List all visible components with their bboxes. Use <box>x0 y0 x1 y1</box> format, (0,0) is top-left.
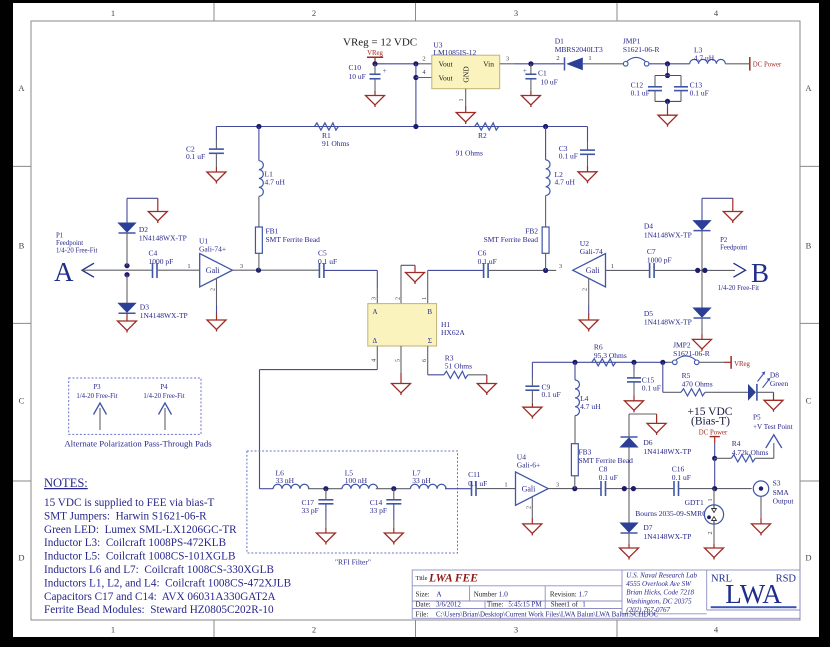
svg-text:A: A <box>54 257 74 287</box>
wire down to cap pair <box>667 64 669 76</box>
svg-text:+V Test Point: +V Test Point <box>753 423 793 431</box>
svg-text:LWA: LWA <box>725 579 782 609</box>
svg-text:Revision:: Revision: <box>550 591 577 599</box>
node C1 <box>528 61 533 66</box>
svg-text:1N4148WX-TP: 1N4148WX-TP <box>643 447 691 456</box>
svg-text:S3: S3 <box>773 479 781 488</box>
ground above D2 <box>148 198 167 223</box>
node C14 <box>391 486 396 491</box>
svg-text:0.1 uF: 0.1 uF <box>631 89 650 98</box>
node B feed right <box>702 268 707 273</box>
svg-text:0.1 uF: 0.1 uF <box>542 390 561 399</box>
svg-text:+: + <box>383 66 387 75</box>
label FB1 <box>266 226 321 244</box>
svg-text:33 pF: 33 pF <box>302 506 319 515</box>
svg-text:GND: GND <box>462 66 471 83</box>
ground U3 <box>456 106 475 124</box>
label C16 <box>672 464 691 482</box>
svg-text:33 nH: 33 nH <box>412 476 431 485</box>
svg-text:HX62A: HX62A <box>441 328 465 337</box>
label R5 <box>682 371 713 389</box>
address block <box>626 571 697 614</box>
label C10 <box>349 63 366 81</box>
label P2 <box>720 237 747 252</box>
svg-text:1.7: 1.7 <box>579 590 589 599</box>
node cap pair join <box>665 99 670 104</box>
svg-text:Output: Output <box>773 496 795 505</box>
wire JMP1 to L3 <box>649 63 690 65</box>
svg-text:3: 3 <box>559 263 562 270</box>
wire D2 to node <box>126 233 128 266</box>
svg-text:SMT Ferrite Bead: SMT Ferrite Bead <box>266 235 321 244</box>
port B arrow <box>734 263 746 277</box>
svg-text:0.1 uF: 0.1 uF <box>690 89 709 98</box>
label C1 <box>538 69 558 87</box>
node C12/C13 top <box>665 61 670 66</box>
svg-text:1N4148WX-TP: 1N4148WX-TP <box>644 317 692 326</box>
wire C5 to H1 pin3 <box>324 270 377 303</box>
logo NRL/RSD/LWA <box>711 574 797 610</box>
svg-text:VReg: VReg <box>367 50 383 57</box>
wire D8 to ground <box>757 392 774 400</box>
node U2 in <box>543 268 548 273</box>
svg-text:B: B <box>806 241 812 251</box>
svg-text:DC Power: DC Power <box>753 62 782 69</box>
ground D8 <box>764 400 783 412</box>
label FB2 <box>484 226 539 244</box>
ground C12/C13 <box>658 101 677 126</box>
power port DC Power (top) <box>750 57 782 71</box>
svg-text:P1: P1 <box>56 233 63 240</box>
svg-text:10 uF: 10 uF <box>541 78 558 87</box>
title block text <box>416 573 659 619</box>
svg-text:D6: D6 <box>643 438 652 447</box>
label U1 <box>199 237 226 254</box>
wire U3 pin3 to C1 <box>500 63 565 65</box>
inductor L5 <box>342 484 378 488</box>
svg-text:1: 1 <box>458 98 465 101</box>
wire D2 top corner <box>127 198 158 223</box>
wire C11 to U4 <box>476 488 516 490</box>
wire bias rail <box>532 361 668 363</box>
svg-text:6: 6 <box>421 359 428 362</box>
svg-text:SMT Ferrite Bead: SMT Ferrite Bead <box>484 235 539 244</box>
label C4 <box>149 249 174 267</box>
svg-text:3: 3 <box>514 625 518 635</box>
svg-text:Number: Number <box>474 591 498 599</box>
capacitor C6 <box>484 263 489 278</box>
label C13 <box>690 80 709 97</box>
svg-text:FB1: FB1 <box>266 226 279 235</box>
resistor R2 <box>475 123 499 130</box>
svg-text:3: 3 <box>240 263 243 270</box>
svg-text:(Bias-T): (Bias-T) <box>691 415 730 427</box>
svg-text:P3: P3 <box>93 384 101 391</box>
label C14 <box>370 498 387 515</box>
svg-text:2: 2 <box>394 297 401 300</box>
diode D3 <box>119 303 136 313</box>
wire C8 to C16 <box>606 488 675 490</box>
svg-text:C8: C8 <box>599 464 608 473</box>
svg-text:P2: P2 <box>720 237 728 244</box>
svg-text:D7: D7 <box>643 523 652 532</box>
capacitor C14 <box>386 489 401 533</box>
op-amp U3 regulator body <box>432 55 500 88</box>
svg-text:1: 1 <box>111 8 115 18</box>
capacitor C12 <box>648 76 681 102</box>
svg-text:1: 1 <box>187 263 190 270</box>
ground above D4 <box>723 198 742 223</box>
label C17 <box>302 498 319 515</box>
label D4 <box>644 222 692 240</box>
svg-text:D: D <box>18 553 24 563</box>
inductor L6 <box>273 484 309 488</box>
transformer H1 body <box>368 304 437 346</box>
label C11 <box>468 470 487 488</box>
svg-text:1/4-20 Free-Fit: 1/4-20 Free-Fit <box>718 285 759 292</box>
svg-text:+: + <box>523 66 527 75</box>
svg-text:Gali: Gali <box>522 485 537 494</box>
test point P5 arrow <box>766 435 782 459</box>
label L4 <box>580 394 601 411</box>
notes block <box>44 476 291 616</box>
connector S3 <box>753 481 768 496</box>
svg-text:1/4-20 Free-Fit: 1/4-20 Free-Fit <box>56 248 97 255</box>
H1 pin2 to ground <box>394 265 424 303</box>
svg-text:1N4148WX-TP: 1N4148WX-TP <box>643 532 691 541</box>
svg-text:Δ: Δ <box>373 337 378 345</box>
diode D4 <box>694 221 711 231</box>
svg-text:1N4148WX-TP: 1N4148WX-TP <box>644 230 692 239</box>
label S3 <box>773 479 795 506</box>
svg-text:4.7 uH: 4.7 uH <box>555 178 576 187</box>
svg-text:LM1085IS-12: LM1085IS-12 <box>433 48 476 57</box>
svg-text:0.1 uF: 0.1 uF <box>478 257 497 266</box>
ground below D3 <box>118 313 137 332</box>
node center rail tap <box>413 124 418 129</box>
svg-text:1.0: 1.0 <box>499 590 509 599</box>
label U3 <box>433 41 476 58</box>
svg-text:Title: Title <box>416 575 428 582</box>
svg-text:33 nH: 33 nH <box>276 476 295 485</box>
svg-text:C10: C10 <box>349 63 362 72</box>
svg-text:4.7 uH: 4.7 uH <box>580 402 601 411</box>
svg-text:C: C <box>806 396 812 406</box>
pad P3 <box>76 384 117 430</box>
label D3 <box>140 303 188 321</box>
wire D4 top corner <box>702 198 733 220</box>
resistor R4 <box>715 455 774 462</box>
label JMP2 <box>673 340 710 358</box>
svg-text:4.7 uH: 4.7 uH <box>694 53 715 62</box>
svg-text:0.1 uF: 0.1 uF <box>672 473 691 482</box>
svg-text:Inductor L3: Coilcraft 1008PS: Inductor L3: Coilcraft 1008PS-472KLB <box>44 537 226 549</box>
label P1 <box>56 233 97 255</box>
ground C1 <box>521 96 540 108</box>
svg-text:S1621-06-R: S1621-06-R <box>623 45 660 54</box>
capacitor C5 <box>319 263 324 278</box>
wire DC Power to output node <box>714 458 716 488</box>
svg-text:15 VDC is supplied to FEE via: 15 VDC is supplied to FEE via bias-T <box>44 497 215 509</box>
node D6/D7 left <box>622 486 627 491</box>
D1 pin numbers <box>556 55 591 62</box>
svg-text:1: 1 <box>111 625 115 635</box>
svg-text:"RFI Filter": "RFI Filter" <box>335 557 371 566</box>
node pin2 tap <box>413 61 418 66</box>
wire U1 out <box>232 269 319 271</box>
H1 pin5 ground <box>392 346 411 395</box>
label R3 <box>445 354 472 371</box>
pad P4 <box>143 384 184 430</box>
svg-text:A: A <box>805 83 812 93</box>
svg-text:B: B <box>19 241 25 251</box>
svg-text:0.1 uF: 0.1 uF <box>559 151 578 160</box>
wire into L6 <box>260 488 274 490</box>
svg-text:(202) 767-0767: (202) 767-0767 <box>626 606 670 614</box>
svg-text:0.1 uF: 0.1 uF <box>186 152 205 161</box>
svg-text:1000 pF: 1000 pF <box>149 257 174 266</box>
svg-text:P5: P5 <box>753 413 761 421</box>
diode D2 <box>119 223 136 233</box>
node R4 left <box>712 456 717 461</box>
svg-text:Alternate Polarization Pass-Th: Alternate Polarization Pass-Through Pads <box>64 438 212 448</box>
wire C4 to U1 <box>157 269 200 271</box>
node U1 out <box>256 268 261 273</box>
svg-text:Feedpoint: Feedpoint <box>56 240 83 247</box>
wire A to C4 <box>127 269 152 271</box>
U3 GND pin <box>465 89 467 106</box>
svg-text:File:: File: <box>416 610 429 618</box>
label D8 <box>770 370 789 388</box>
wire R5 branch <box>663 362 681 392</box>
GDT1 ground <box>705 524 724 560</box>
capacitor C3 <box>580 127 595 172</box>
H1 pin4 wire <box>371 346 378 370</box>
diode D5 <box>694 308 711 318</box>
svg-text:10 uF: 10 uF <box>349 72 366 81</box>
svg-text:U.S. Naval Research Lab: U.S. Naval Research Lab <box>626 571 697 579</box>
node L1 <box>256 124 261 129</box>
capacitor C11 <box>472 481 477 496</box>
capacitor C15 <box>627 362 641 401</box>
svg-text:DC Power: DC Power <box>699 429 728 436</box>
inductor L7 <box>410 484 446 488</box>
svg-text:FB2: FB2 <box>525 226 538 235</box>
svg-text:2: 2 <box>556 55 559 62</box>
capacitor C10 <box>370 64 387 96</box>
svg-text:2: 2 <box>312 625 316 635</box>
label L1 <box>265 170 286 187</box>
svg-text:5:45:15 PM: 5:45:15 PM <box>508 601 542 609</box>
svg-text:GDT1: GDT1 <box>685 498 704 507</box>
svg-text:R2: R2 <box>478 131 487 140</box>
label C15 <box>642 375 661 392</box>
wire C16 to S3 <box>679 488 752 490</box>
wire node to D5 <box>701 270 703 308</box>
svg-text:3: 3 <box>556 482 559 489</box>
label D7 <box>643 523 691 541</box>
svg-text:1: 1 <box>582 601 586 609</box>
svg-text:Gali: Gali <box>206 266 221 275</box>
U3 pin names <box>439 60 495 83</box>
svg-text:Inductors L1, L2, and L4: Coi: Inductors L1, L2, and L4: Coilcraft 1008… <box>44 577 291 589</box>
svg-text:1/4-20 Free-Fit: 1/4-20 Free-Fit <box>143 393 184 400</box>
wire D6 top corner <box>629 414 657 436</box>
svg-text:C11: C11 <box>468 470 480 479</box>
wire H1 pin4 to RFI filter <box>260 370 378 489</box>
wire D1 to JMP1 <box>583 63 624 65</box>
ferrite bead FB2 <box>542 227 549 270</box>
svg-text:Σ: Σ <box>428 337 432 345</box>
svg-text:VReg = 12 VDC: VReg = 12 VDC <box>343 37 417 49</box>
pads dashed box <box>69 378 201 434</box>
inductor L4 <box>575 362 579 443</box>
H1 corner pin names <box>373 308 433 345</box>
svg-text:SMT Jumpers: Harwin S1621-06-: SMT Jumpers: Harwin S1621-06-R <box>44 510 207 522</box>
ferrite bead FB3 <box>571 444 578 489</box>
svg-text:91 Ohms: 91 Ohms <box>456 148 483 157</box>
svg-text:Gali-6+: Gali-6+ <box>517 460 540 469</box>
label C5 <box>318 249 337 266</box>
svg-text:MBRS2040LT3: MBRS2040LT3 <box>555 45 603 54</box>
label L5 <box>345 469 368 486</box>
ground below D5 <box>693 318 712 351</box>
label U2 <box>580 239 603 256</box>
resistor R6 <box>592 359 616 366</box>
node A feed lower <box>124 272 129 277</box>
capacitor C1 <box>523 64 537 96</box>
ground C10 <box>366 96 385 108</box>
svg-text:Gali-74+: Gali-74+ <box>199 245 226 254</box>
wire D4 to node <box>701 231 703 271</box>
svg-text:100 nH: 100 nH <box>345 476 368 485</box>
svg-text:C16: C16 <box>672 464 685 473</box>
svg-text:Brian Hicks, Code 7218: Brian Hicks, Code 7218 <box>626 589 694 597</box>
svg-text:0.1 uF: 0.1 uF <box>468 479 487 488</box>
svg-text:VReg: VReg <box>734 361 750 368</box>
wire second rail <box>216 126 587 128</box>
svg-text:Bourns 2035-09-SMRG: Bourns 2035-09-SMRG <box>635 509 708 518</box>
label C3 <box>559 144 578 161</box>
jumper JMP2 <box>668 356 699 365</box>
wire U4 out <box>548 488 601 490</box>
inductor L2 <box>546 127 550 228</box>
label C6 <box>478 249 497 266</box>
svg-text:Feedpoint: Feedpoint <box>720 245 747 252</box>
svg-text:2: 2 <box>422 56 425 63</box>
svg-text:470 Ohms: 470 Ohms <box>682 380 713 389</box>
U2 pin2 ground <box>579 278 598 331</box>
node C15 top <box>631 360 636 365</box>
svg-text:0.1 uF: 0.1 uF <box>642 383 661 392</box>
label C12 <box>631 80 650 97</box>
inductor L3 <box>690 59 726 63</box>
svg-text:2: 2 <box>312 8 316 18</box>
svg-text:C1: C1 <box>538 69 547 78</box>
label C8 <box>599 464 618 482</box>
svg-text:3: 3 <box>506 56 509 63</box>
wire pin4 stub <box>416 77 432 79</box>
label C7 <box>647 247 672 265</box>
svg-text:R4: R4 <box>732 439 741 448</box>
U4 pin2 ground <box>523 497 542 536</box>
resistor R1 <box>314 123 338 130</box>
svg-text:B: B <box>427 308 432 316</box>
svg-text:LWA FEE: LWA FEE <box>428 573 478 585</box>
title block frame <box>412 570 800 618</box>
ground C2 <box>207 172 226 184</box>
capacitor C4 <box>153 263 158 278</box>
svg-text:B: B <box>751 258 769 288</box>
svg-text:1: 1 <box>421 297 428 300</box>
wire VReg to U3 pin2 <box>375 63 432 65</box>
svg-text:C: C <box>19 396 25 406</box>
node pin4 tap <box>413 75 418 80</box>
svg-text:91 Ohms: 91 Ohms <box>322 139 349 148</box>
svg-text:1: 1 <box>707 498 714 501</box>
label C9 <box>542 382 561 399</box>
capacitor C9 <box>525 362 539 407</box>
svg-text:1N4148WX-TP: 1N4148WX-TP <box>139 234 187 243</box>
wire JMP2 to VReg <box>699 361 731 363</box>
svg-text:1: 1 <box>504 482 507 489</box>
node VReg/C10 <box>372 61 377 66</box>
ground C3 <box>578 172 597 184</box>
ground C9 <box>523 407 542 419</box>
label FB3 <box>579 448 634 466</box>
capacitor C2 <box>209 127 224 173</box>
H1 pin6 wire <box>421 346 444 375</box>
label JMP1 <box>623 37 660 54</box>
svg-text:Gali-74: Gali-74 <box>580 247 603 256</box>
label D2 <box>139 225 187 243</box>
resistor R5 <box>681 389 705 396</box>
port A arrow <box>82 263 127 277</box>
wire L3 to DC Power <box>725 63 750 65</box>
svg-text:0.1 uF: 0.1 uF <box>318 257 337 266</box>
node B feed left <box>695 268 700 273</box>
ground C14 <box>384 533 403 545</box>
resistor R3 <box>444 371 487 378</box>
node U4 out <box>572 486 577 491</box>
label L2 <box>555 170 576 187</box>
ground after R3 <box>477 375 496 395</box>
capacitor C8 <box>601 481 606 496</box>
wire node to D7 <box>628 489 630 523</box>
svg-text:1N4148WX-TP: 1N4148WX-TP <box>140 311 188 320</box>
LED D8 <box>748 371 770 400</box>
svg-text:4.7 uH: 4.7 uH <box>265 177 286 186</box>
label H1 <box>441 320 465 337</box>
svg-text:2: 2 <box>707 531 714 534</box>
diode D1 <box>565 57 583 70</box>
svg-text:Green: Green <box>770 379 789 388</box>
label L7 <box>412 469 431 486</box>
node D6/D7 right <box>631 486 636 491</box>
ground C17 <box>316 533 335 545</box>
svg-text:Vout: Vout <box>439 60 454 69</box>
power port VReg (bias) <box>731 356 750 369</box>
capacitor C13 <box>655 76 688 102</box>
svg-text:A: A <box>18 83 25 93</box>
op-amp U4 <box>516 472 549 505</box>
U1 pin2 ground <box>207 278 226 331</box>
svg-text:95.3 Ohms: 95.3 Ohms <box>594 351 627 360</box>
svg-text:33 pF: 33 pF <box>370 506 387 515</box>
svg-text:D: D <box>805 553 811 563</box>
svg-text:Washington, DC 20375: Washington, DC 20375 <box>626 597 692 605</box>
wire R5 to D8 <box>705 391 748 393</box>
